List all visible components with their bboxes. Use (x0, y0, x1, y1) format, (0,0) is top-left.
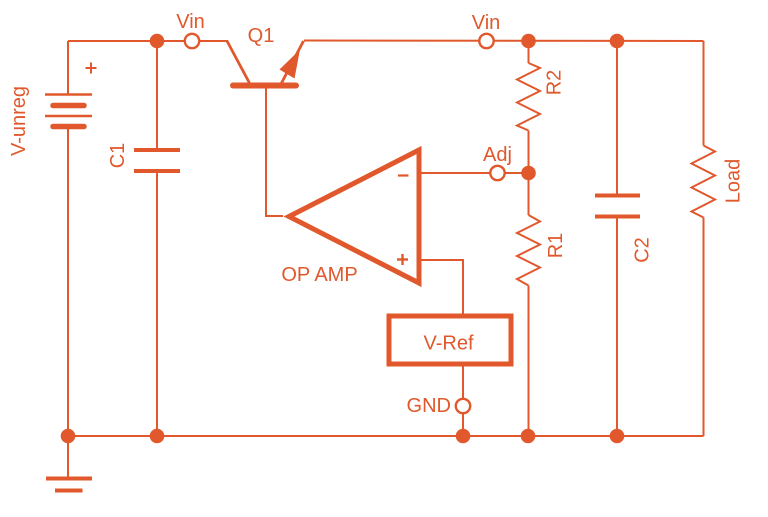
wire op-amp non-inverting input to V-Ref (419, 260, 463, 316)
ground symbol (46, 479, 92, 491)
wire top rail left (battery to Q1 emitter) (68, 40, 228, 42)
junction node at C1 / bus (150, 429, 165, 444)
svg-text:R1: R1 (545, 233, 567, 259)
wire bottom ground bus (68, 435, 704, 437)
wire battery bottom lead (67, 126, 69, 436)
junction node at Adj / R1 (521, 166, 536, 181)
wire ground stub (67, 436, 69, 477)
svg-text:Adj: Adj (483, 144, 512, 166)
svg-text:Q1: Q1 (248, 25, 275, 47)
terminal circle GND (456, 399, 470, 413)
wire C2 bottom lead (616, 216, 618, 436)
svg-text:Load: Load (723, 159, 745, 204)
wire load bottom lead (703, 218, 705, 437)
wire Q1 base down to op-amp output (266, 87, 283, 216)
junction node at GND / bus (456, 429, 471, 444)
wire op-amp inverting input to Adj node (419, 172, 528, 174)
svg-text:C2: C2 (632, 237, 654, 263)
svg-text:R2: R2 (544, 70, 566, 96)
battery V-unreg (45, 95, 92, 127)
wire R2 top lead (528, 41, 530, 63)
svg-text:V-Ref: V-Ref (423, 333, 473, 355)
junction node at R2 / top rail (521, 34, 536, 49)
transistor Q1 (227, 41, 304, 86)
wire load top lead (703, 41, 705, 146)
wire R1 top lead (528, 173, 530, 215)
svg-text:C1: C1 (107, 143, 129, 169)
svg-text:Vin: Vin (176, 11, 205, 33)
capacitor C1 (134, 150, 180, 171)
resistor Load (692, 146, 716, 218)
svg-text:GND: GND (407, 395, 451, 417)
svg-text:V-unreg: V-unreg (8, 86, 30, 156)
svg-text:Vin: Vin (472, 12, 501, 34)
terminal circle Vin left (185, 34, 199, 48)
junction node at C1 / top rail (150, 34, 165, 49)
wire R2 bottom / Adj node (528, 131, 530, 174)
junction node at battery / bus (61, 429, 76, 444)
resistor R1 (517, 215, 540, 286)
terminal circle Vin right (479, 34, 493, 48)
capacitor C2 (595, 196, 640, 217)
svg-text:OP AMP: OP AMP (281, 264, 357, 286)
junction node at C2 / top rail (610, 34, 625, 49)
op-amp U1 (289, 150, 419, 283)
V-Ref box U2 (389, 316, 511, 364)
junction node at R1 / bus (521, 429, 536, 444)
terminal circle Adj (490, 166, 504, 180)
battery plus sign (86, 63, 97, 74)
wire R1 bottom lead (528, 286, 530, 437)
junction node at C2 / bus (610, 429, 625, 444)
wire top rail right (Q1 collector to load corner) (304, 40, 704, 43)
resistor R2 (517, 63, 540, 131)
wire battery top lead (67, 41, 69, 94)
wire C1 top lead (156, 41, 158, 150)
wire V-Ref to GND terminal and bus (462, 364, 464, 436)
wire C2 top lead (616, 41, 618, 195)
wire C1 bottom lead (156, 171, 158, 436)
